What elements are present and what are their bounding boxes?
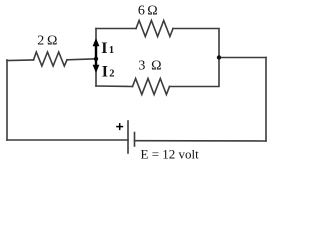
svg-text:6: 6	[138, 4, 145, 19]
wire bottom left	[7, 139, 128, 141]
node B dot	[217, 55, 221, 59]
wire right vertical	[265, 58, 267, 142]
wire left vertical	[6, 60, 8, 140]
resistor 2 ohm	[34, 52, 68, 66]
label battery plus	[116, 123, 123, 130]
wire bottom right	[135, 140, 267, 142]
battery plate long positive	[127, 121, 129, 153]
svg-text:Ω: Ω	[147, 4, 157, 19]
svg-text:2: 2	[109, 69, 114, 80]
resistor 3 ohm	[133, 79, 170, 95]
svg-text:Ω: Ω	[47, 34, 57, 49]
svg-text:3: 3	[138, 59, 145, 74]
svg-text:1: 1	[109, 45, 114, 56]
svg-text:I: I	[101, 40, 107, 57]
wire left top to resistor	[7, 59, 34, 62]
current arrow I1	[93, 38, 100, 58]
wire right mid horizontal	[219, 57, 266, 59]
wire mid branch left	[96, 85, 133, 88]
wire mid branch right	[170, 58, 220, 87]
wire top branch left	[96, 28, 136, 30]
node A dot	[94, 57, 98, 61]
svg-text:Ω: Ω	[151, 59, 161, 74]
wire top branch right	[173, 29, 219, 58]
resistor 6 ohm	[136, 21, 173, 37]
svg-text:E = 12 volt: E = 12 volt	[141, 147, 200, 162]
current arrow I2	[93, 59, 100, 73]
svg-text:I: I	[102, 64, 108, 81]
svg-text:2: 2	[37, 34, 44, 49]
wire junction vertical	[95, 29, 97, 87]
wire resistor to node A	[67, 59, 96, 60]
battery plate short negative	[134, 133, 136, 147]
